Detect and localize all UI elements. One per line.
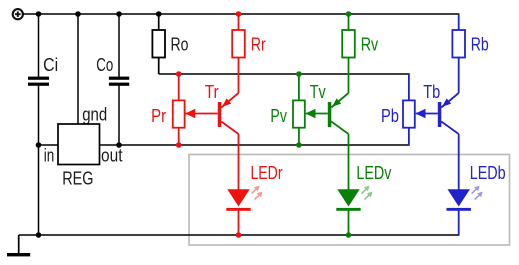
node ground bus junction green bbox=[346, 232, 352, 238]
wire Rr to Tr emitter bbox=[238, 58, 240, 94]
node out rail junction red bbox=[176, 142, 182, 148]
wire pot-rail corner to Pb top bbox=[408, 74, 409, 100]
node out rail junction at Co bbox=[116, 142, 122, 148]
capacitor Co bbox=[109, 77, 129, 86]
node ground bus junction at Ci branch bbox=[36, 232, 42, 238]
wire Tv collector to LEDv bbox=[348, 134, 350, 190]
svg-text:Tb: Tb bbox=[423, 82, 440, 102]
svg-text:LEDv: LEDv bbox=[356, 163, 391, 183]
svg-text:Tv: Tv bbox=[310, 82, 326, 102]
svg-text:out: out bbox=[101, 146, 123, 166]
node top bus junctions (black) bbox=[36, 11, 162, 17]
wire LEDr cathode to ground bus bbox=[238, 211, 240, 235]
wire Pv bottom lead bbox=[298, 128, 300, 145]
svg-text:Rr: Rr bbox=[251, 35, 266, 55]
svg-text:Pv: Pv bbox=[270, 106, 287, 126]
LED LEDr bbox=[227, 189, 249, 206]
wire gnd branch (top bus to REG gnd pin) bbox=[77, 14, 79, 124]
resistor Rb bbox=[452, 30, 465, 58]
wire Pr top lead bbox=[178, 74, 180, 100]
wire Rb to Tb emitter bbox=[458, 58, 460, 94]
wire Pv wiper to Tv base bbox=[306, 113, 328, 115]
LED LEDb bbox=[448, 189, 470, 206]
wire top supply bus bbox=[23, 13, 459, 15]
wire REG out rail (regulated rail to pots) bbox=[100, 144, 409, 146]
svg-text:in: in bbox=[44, 146, 55, 166]
wire Pr wiper to Tr base bbox=[186, 113, 218, 115]
wire Tb collector to LEDb bbox=[458, 134, 460, 190]
wire REG in lead bbox=[39, 144, 59, 146]
wire Ci branch (top bus to capacitor) bbox=[38, 14, 40, 77]
resistor Ro bbox=[158, 14, 160, 30]
wire pot top rail (Ro to pots) bbox=[159, 73, 408, 75]
svg-text:Tr: Tr bbox=[205, 82, 219, 102]
node top bus junction red bbox=[236, 11, 242, 17]
svg-text:REG: REG bbox=[62, 169, 93, 189]
svg-text:gnd: gnd bbox=[82, 105, 107, 125]
svg-text:LEDr: LEDr bbox=[251, 163, 283, 183]
transistor Tr (PNP) bbox=[218, 102, 222, 127]
node out rail junction green bbox=[296, 142, 302, 148]
transistor Tb (PNP) bbox=[438, 102, 442, 127]
svg-text:Co: Co bbox=[96, 55, 113, 75]
wire Pb bottom lead to out rail end bbox=[408, 128, 409, 145]
svg-text:Ci: Ci bbox=[43, 55, 58, 75]
wire Pb wiper to Tb base bbox=[416, 113, 438, 115]
wire Ci bottom to ground bus bbox=[38, 86, 40, 235]
capacitor Ci bbox=[28, 77, 49, 86]
wire top bus corner to Rb bbox=[458, 15, 460, 30]
node in-rail junction at Ci branch bbox=[36, 142, 42, 148]
svg-text:Pb: Pb bbox=[381, 106, 399, 126]
wire Rv to Tv emitter bbox=[348, 58, 350, 94]
frame LED board outline (gray box) bbox=[189, 155, 510, 246]
potentiometer Pv bbox=[293, 100, 305, 127]
potentiometer Pb bbox=[403, 100, 415, 127]
wire Co branch (top bus to capacitor) bbox=[118, 14, 120, 77]
svg-text:Rb: Rb bbox=[471, 35, 489, 55]
node ground bus junction red bbox=[236, 232, 242, 238]
node pot-rail junction red bbox=[176, 71, 182, 77]
LED LEDv bbox=[337, 189, 359, 206]
resistor Rr bbox=[238, 14, 240, 30]
wire Pv top lead bbox=[298, 74, 300, 100]
regulator REG U1 bbox=[58, 124, 100, 165]
wire Tr collector to LEDr bbox=[238, 134, 240, 190]
svg-text:LEDb: LEDb bbox=[470, 163, 506, 183]
wire bottom ground bus bbox=[19, 234, 460, 236]
wire Pr bottom lead bbox=[178, 128, 180, 145]
terminal +V input bbox=[13, 9, 23, 19]
wire LEDb cathode to ground bus end bbox=[458, 211, 460, 235]
node pot-rail junction green bbox=[296, 71, 302, 77]
resistor Rv bbox=[348, 14, 350, 30]
wire Co bottom to out rail bbox=[118, 86, 120, 145]
svg-text:Rv: Rv bbox=[361, 35, 379, 55]
ground symbol bbox=[7, 235, 30, 256]
svg-text:Ro: Ro bbox=[171, 35, 189, 55]
node top bus junction green bbox=[346, 11, 352, 17]
wire LEDv cathode to ground bus bbox=[348, 211, 350, 235]
potentiometer Pr bbox=[173, 100, 185, 127]
svg-text:Pr: Pr bbox=[151, 106, 166, 126]
transistor Tv (PNP) bbox=[328, 102, 332, 127]
